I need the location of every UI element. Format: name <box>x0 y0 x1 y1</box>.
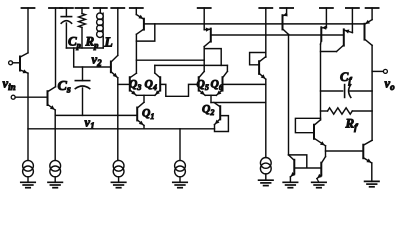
wire T2 stem <box>55 8 57 87</box>
svg-text:L: L <box>104 35 113 50</box>
ground under I3 <box>111 181 125 183</box>
transistor Qa input follower <box>19 57 21 71</box>
transistor P6 output <box>371 8 373 20</box>
transistor D1 diode-connected <box>313 125 315 139</box>
ground under QO2 <box>365 180 379 182</box>
wire QO2 base line <box>326 150 364 152</box>
svg-text:v2: v2 <box>92 53 103 69</box>
ground under B1 <box>283 181 297 183</box>
power supply tap T8pnp2 <box>198 7 211 9</box>
power supply tap T2 <box>49 7 62 9</box>
wire pnp2 base bus <box>211 34 344 36</box>
wire T9 stem <box>265 8 267 57</box>
wire B2 emitter stem <box>317 179 319 183</box>
wire v1 line <box>55 114 137 116</box>
ground under I2 <box>48 181 62 183</box>
transistor P1 pnp diode <box>135 8 137 15</box>
wire D1 emitter down <box>325 146 327 157</box>
svg-text:Q2: Q2 <box>202 104 214 118</box>
ground under I4 <box>173 181 187 183</box>
transistor Q1 <box>136 108 138 121</box>
wire D1 base loop <box>295 118 320 132</box>
transistor P3 pnp <box>286 8 288 15</box>
transistor Q4 <box>159 77 161 90</box>
wire tank to v2 node <box>74 48 111 67</box>
power supply tap T6 <box>111 7 124 9</box>
wire B1 B2 base bus <box>294 167 321 169</box>
wire D0 base loop <box>250 53 266 65</box>
wire Q56 to Q2 collector <box>210 95 212 102</box>
wire emitter rail <box>28 128 215 130</box>
wire Q4 collector up <box>154 65 156 73</box>
power supply tap T3 <box>60 7 73 9</box>
ground under I5 <box>259 179 273 181</box>
wire Q34 to Q1 collector <box>143 95 145 102</box>
svg-text:Cs: Cs <box>58 79 71 96</box>
power supply tap T5 <box>94 7 107 9</box>
wire pnp base bus <box>155 23 365 25</box>
wire bus B Q4-Q6 collectors <box>155 64 228 66</box>
wire Q4 base route to Q5 <box>160 84 199 96</box>
wire tank bottom join <box>66 47 103 49</box>
wire Q2 collector line <box>211 102 266 104</box>
power supply tap T12 <box>346 7 359 9</box>
power supply tap T10 <box>280 7 293 9</box>
svg-text:Q4: Q4 <box>145 79 157 93</box>
power supply tap T9 <box>259 7 272 9</box>
transistor B2 <box>320 163 322 176</box>
transistor Qf v2 follower <box>110 62 112 73</box>
inductor L <box>99 8 101 13</box>
wire vo vertical <box>371 45 373 140</box>
wire node vertical comp <box>320 44 322 120</box>
transistor D0 diode-connected <box>258 61 260 74</box>
power supply tap T11 <box>320 7 333 9</box>
power supply tap T7pnp1 <box>130 7 143 9</box>
transistor P4 pnp <box>325 8 327 28</box>
wire Qb emitter down <box>54 110 56 160</box>
wire P1 collector down <box>135 34 137 73</box>
svg-text:Q1: Q1 <box>142 108 154 122</box>
transistor P5 output <box>351 8 353 33</box>
transistor QO2 output <box>362 145 364 159</box>
svg-text:vin: vin <box>3 77 16 93</box>
wire Q3 base from follower <box>118 83 130 85</box>
svg-text:Q3: Q3 <box>129 79 141 93</box>
wire B1 emitter stem <box>289 177 291 182</box>
wire top-left supply stem to Qa collector <box>27 8 29 53</box>
transistor Q6 <box>222 77 224 90</box>
wire D0 emitter down <box>265 79 267 157</box>
output terminal vo <box>372 70 383 72</box>
ground under I1 <box>21 181 35 183</box>
wire P1 base jog <box>136 24 154 41</box>
transistor P2 pnp <box>203 8 205 30</box>
wire QO2 emitter down <box>371 163 373 181</box>
transistor Qb input follower <box>47 91 49 105</box>
capacitor Cf <box>321 90 343 92</box>
ground under B2 <box>312 181 326 183</box>
input terminal vin- <box>11 95 15 99</box>
transistor Q5 <box>198 77 200 90</box>
svg-text:vo: vo <box>385 77 396 93</box>
wire Qa emitter down <box>27 73 29 160</box>
wire Q3Q4 emitters <box>136 94 155 96</box>
wire P5 collector to node <box>321 51 337 53</box>
power supply tap T4 <box>76 7 89 9</box>
transistor B1 diode-connected <box>293 160 295 174</box>
svg-text:Q6: Q6 <box>211 79 223 93</box>
svg-text:Q5: Q5 <box>197 79 209 93</box>
wire Q6 base to right <box>223 83 266 85</box>
wire Q1 emitter to rail <box>143 126 145 129</box>
current source I2 <box>50 160 61 171</box>
capacitor Cp <box>65 8 67 17</box>
current source I1 <box>23 160 34 171</box>
resistor Rp <box>81 8 83 14</box>
input terminal vin+ <box>9 61 13 65</box>
current source I5 <box>260 158 271 169</box>
wire B1 base loop <box>289 155 307 168</box>
wire Qf emitter down <box>117 78 119 160</box>
wire Q5Q6 emitters <box>205 94 216 96</box>
wire P2 collector elbow <box>203 47 205 72</box>
wire Q6 collector up <box>226 65 228 71</box>
wire P3 collector down <box>288 34 290 154</box>
current source I3 <box>113 160 124 171</box>
wire T6 stem <box>117 8 119 55</box>
capacitor Cs <box>82 67 84 81</box>
transistor Q2 <box>219 106 221 119</box>
svg-text:Rf: Rf <box>345 116 359 134</box>
resistor Rf <box>321 110 328 112</box>
wire bus A Q3-Q5 collectors <box>136 59 204 61</box>
current source I4 tail <box>179 129 181 161</box>
transistor Q3 <box>129 77 131 90</box>
wire Q2 base hook <box>215 116 229 132</box>
power supply tap T1 <box>22 7 35 9</box>
power supply tap T13 <box>366 7 379 9</box>
svg-text:Cf: Cf <box>340 70 352 86</box>
